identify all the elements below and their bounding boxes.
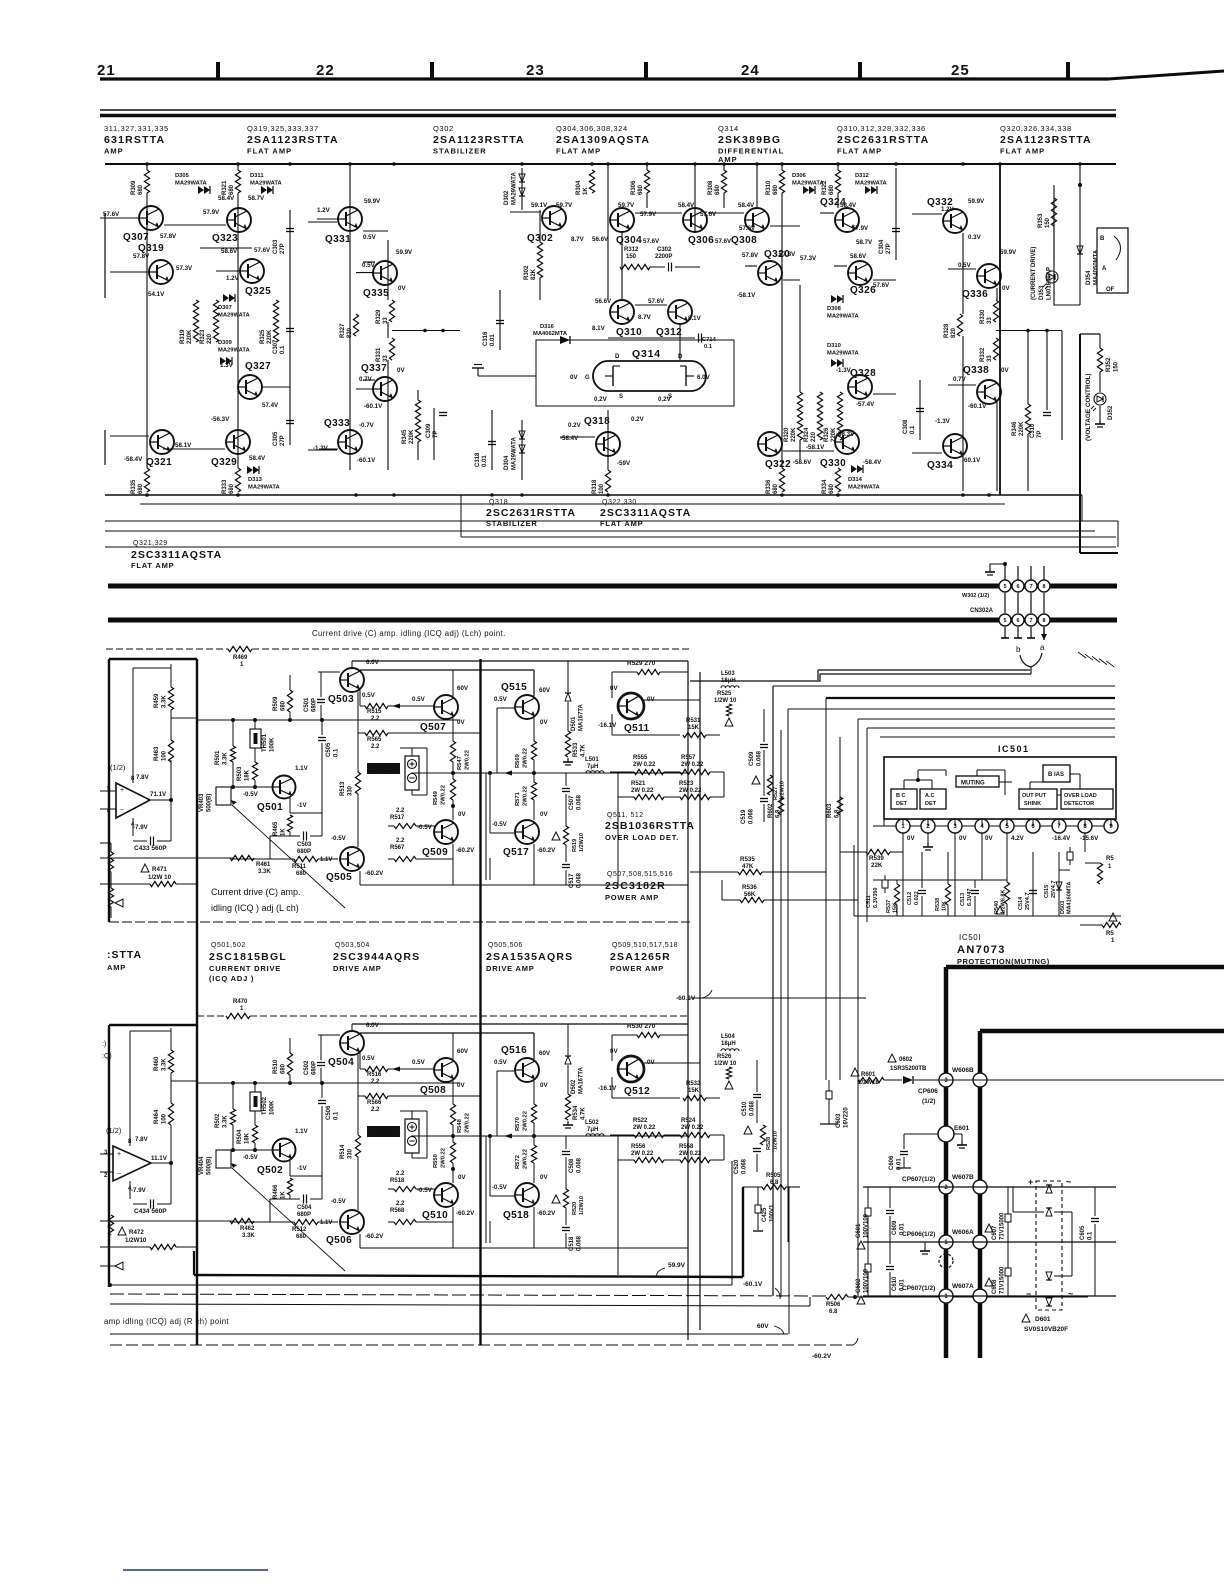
resistor R323	[211, 300, 221, 342]
svg-text:R325: R325	[260, 329, 266, 344]
svg-text:0.1: 0.1	[910, 425, 916, 434]
svg-text:VR403: VR403	[199, 793, 205, 812]
svg-text:100: 100	[162, 750, 168, 761]
svg-text:0V: 0V	[540, 1082, 548, 1089]
wire bus 449	[163, 448, 225, 450]
wire q511	[611, 672, 613, 698]
svg-text:C506: C506	[326, 1105, 332, 1120]
svg-text:D354: D354	[1086, 270, 1092, 285]
svg-text:C605: C605	[1080, 1225, 1086, 1240]
junction dots top rail	[145, 162, 149, 166]
svg-text:57.3V: 57.3V	[800, 255, 817, 262]
resistor R329	[387, 300, 397, 322]
svg-text:R520: R520	[572, 1202, 578, 1215]
svg-text:Q321: Q321	[146, 457, 172, 468]
svg-text:R525: R525	[717, 691, 732, 697]
wire col R345	[417, 390, 419, 460]
connector CN302A pin 6	[1017, 593, 1019, 613]
wire -60.1V run	[690, 997, 866, 999]
svg-text:Q307: Q307	[123, 232, 149, 243]
svg-text:D601: D601	[1035, 1316, 1051, 1323]
wire trimmer leads	[411, 748, 413, 756]
wire q517 base	[490, 832, 514, 834]
bridge D601 dashed box	[1036, 1181, 1062, 1310]
warning triangle	[725, 1081, 733, 1089]
svg-text:60V: 60V	[539, 687, 551, 694]
wire q321 base	[110, 435, 149, 437]
svg-text:-16.1V: -16.1V	[598, 722, 617, 729]
svg-text:R336: R336	[766, 479, 772, 494]
svg-text:2SB1036RSTTA: 2SB1036RSTTA	[605, 820, 695, 832]
connector CN302A pin 5	[1004, 593, 1006, 613]
svg-text:R523: R523	[679, 781, 694, 787]
svg-text:2SC1815BGL: 2SC1815BGL	[209, 951, 287, 963]
svg-text:220K: 220K	[187, 329, 193, 344]
wire col R346	[1027, 331, 1029, 491]
svg-text:2W0.22: 2W0.22	[523, 748, 529, 768]
wire q505 emitter down	[359, 871, 361, 885]
resistor R327	[351, 314, 361, 336]
svg-text:Q517: Q517	[503, 847, 529, 858]
svg-text:0.022: 0.022	[914, 891, 920, 905]
svg-text:R324: R324	[804, 427, 810, 442]
wire q306-q308	[708, 212, 744, 214]
channel bottom dashed L	[109, 921, 690, 923]
svg-text:R5: R5	[1106, 931, 1114, 937]
transistor Q516	[515, 1058, 539, 1082]
wire bus vertical x773	[772, 686, 774, 1296]
svg-text:R549: R549	[433, 790, 439, 805]
resistor R330	[991, 300, 1001, 322]
svg-text:8.7V: 8.7V	[638, 314, 652, 321]
svg-text:Q501,502: Q501,502	[211, 942, 246, 949]
wire rail 2	[140, 503, 1005, 505]
svg-text:15K: 15K	[688, 1088, 700, 1094]
wire col R324	[819, 392, 821, 440]
wire Q314 loop	[536, 340, 734, 406]
wire q307 base	[100, 217, 138, 219]
svg-text:R459: R459	[154, 693, 160, 708]
svg-text:Q312: Q312	[656, 327, 682, 338]
ruler tick	[430, 62, 434, 78]
svg-text:-1.3V: -1.3V	[836, 367, 852, 374]
wire q334 base	[912, 452, 942, 454]
svg-text:-1V: -1V	[297, 802, 308, 809]
svg-text:C310: C310	[1030, 423, 1036, 438]
wire x789 vertical	[788, 1187, 790, 1334]
svg-text:amp idling (ICQ) adj (R ch): amp idling (ICQ) adj (R ch) point	[104, 1317, 229, 1326]
capacitor C308	[916, 408, 924, 410]
wire q509 emitter to bus	[452, 859, 454, 885]
resistor R512	[294, 1219, 318, 1224]
wire col C308	[919, 380, 921, 440]
svg-text:C507: C507	[569, 795, 575, 810]
resistor R540	[1002, 882, 1012, 904]
svg-text:57.9V: 57.9V	[203, 209, 220, 216]
svg-text:500(B): 500(B)	[207, 1157, 213, 1175]
svg-text:58.4V: 58.4V	[249, 455, 266, 462]
svg-text:8.1V: 8.1V	[688, 315, 702, 322]
wire q511	[611, 1035, 613, 1061]
svg-text:6.0V: 6.0V	[697, 374, 711, 381]
svg-text:D304: D304	[504, 455, 510, 470]
svg-text:R538: R538	[935, 898, 941, 911]
diode D313	[247, 466, 253, 474]
diode D316	[560, 336, 570, 344]
svg-text:R469: R469	[233, 655, 248, 661]
svg-text:R528: R528	[766, 1137, 772, 1150]
bottom long line 1294 dashed	[110, 1294, 826, 1296]
svg-text:-1.3V: -1.3V	[313, 445, 329, 452]
trimmer VR403	[216, 787, 231, 805]
connector W606B	[939, 1073, 953, 1087]
connector CN302A pin 8	[1043, 593, 1045, 613]
resistor R345	[413, 400, 423, 442]
wire q517 column	[533, 1207, 535, 1248]
ground R534	[567, 1121, 569, 1125]
svg-text:330: 330	[348, 785, 354, 796]
svg-text:59.7V: 59.7V	[618, 202, 635, 209]
svg-text:1.2V: 1.2V	[941, 206, 955, 213]
svg-text:+: +	[1028, 1177, 1033, 1187]
svg-text:100K: 100K	[270, 1100, 276, 1115]
wire q320 base	[745, 265, 757, 267]
svg-text:1K: 1K	[281, 1191, 287, 1199]
svg-text:0.01: 0.01	[900, 1223, 906, 1235]
svg-text:220K: 220K	[1019, 421, 1025, 436]
svg-text:Q503,504: Q503,504	[335, 942, 370, 949]
wire col Q323	[237, 164, 239, 491]
svg-text:DETECTOR: DETECTOR	[1064, 801, 1094, 807]
svg-text:(1/2): (1/2)	[106, 1126, 122, 1135]
svg-text:Q516: Q516	[501, 1045, 527, 1056]
wire q310-q312	[635, 304, 667, 306]
svg-text:R548: R548	[457, 1118, 463, 1133]
svg-text:0.068: 0.068	[577, 872, 583, 888]
transistor Q502	[273, 1139, 296, 1162]
svg-text:A.C: A.C	[925, 793, 935, 799]
wire q326 out	[873, 279, 896, 281]
resistor R516	[359, 1053, 361, 1069]
svg-text:C316: C316	[483, 331, 489, 346]
divider channel box left R	[108, 1025, 110, 1287]
transistor Q326	[848, 261, 872, 285]
diode D305	[198, 186, 204, 194]
svg-text:CP607(1/2): CP607(1/2)	[902, 1176, 935, 1183]
ruler tick	[1066, 62, 1070, 78]
transistor Q318	[596, 432, 620, 456]
svg-text:7.8V: 7.8V	[135, 1136, 149, 1143]
svg-text:0.5V: 0.5V	[362, 692, 376, 699]
capacitor C304	[892, 228, 900, 230]
wire col Q307	[146, 164, 148, 491]
resistor R333	[233, 468, 243, 492]
wire rail 1080	[940, 1079, 1224, 1081]
svg-text:1K: 1K	[281, 828, 287, 836]
capacitor C502	[320, 1035, 322, 1060]
svg-text:2SK389BG: 2SK389BG	[718, 134, 781, 146]
resistor R537	[894, 884, 899, 905]
trimmer jack	[405, 1119, 419, 1153]
svg-text:OF: OF	[1106, 287, 1115, 293]
diode D310	[831, 359, 837, 367]
svg-text:PROTECTION(MUTING): PROTECTION(MUTING)	[957, 957, 1050, 966]
svg-text:Q515: Q515	[501, 682, 527, 693]
svg-text:-60.1V: -60.1V	[743, 1281, 763, 1288]
wire bus horizontal y686	[773, 685, 1115, 687]
wire q509 links	[452, 1177, 454, 1183]
capacitor C309	[439, 412, 447, 414]
svg-text:R509: R509	[273, 696, 279, 711]
svg-text:DRIVE AMP: DRIVE AMP	[486, 964, 535, 973]
svg-text:W606A: W606A	[952, 1229, 974, 1236]
wire q503 collector rail	[360, 669, 534, 671]
svg-text:Q505: Q505	[326, 872, 352, 883]
connector E601	[938, 1126, 954, 1142]
wire q335 base	[363, 261, 375, 263]
svg-text:100: 100	[162, 1113, 168, 1124]
wire col C318	[491, 410, 493, 470]
transistor Q302	[542, 206, 566, 230]
svg-text:15K: 15K	[688, 725, 700, 731]
svg-text:C512: C512	[907, 892, 913, 905]
svg-text:2.2: 2.2	[396, 1201, 405, 1207]
svg-text:8.7V: 8.7V	[571, 236, 585, 243]
svg-text:6.8: 6.8	[776, 809, 782, 818]
svg-text:-60.1V: -60.1V	[364, 403, 383, 410]
svg-text:VR404: VR404	[199, 1156, 205, 1175]
capacitor C501	[320, 672, 322, 697]
transistor Q505	[340, 847, 364, 871]
wire bottom row L	[100, 857, 233, 859]
transistor Q306	[683, 208, 707, 232]
wire col Q318	[607, 410, 609, 491]
bridge diode 2	[1046, 1208, 1052, 1216]
ground voltage control	[1099, 406, 1101, 420]
svg-text:LN01830AP: LN01830AP	[1047, 267, 1053, 300]
resistor R539	[866, 849, 890, 854]
svg-text:33: 33	[987, 355, 993, 362]
svg-text:58.6V: 58.6V	[850, 253, 867, 260]
svg-text:FLAT AMP: FLAT AMP	[247, 147, 292, 156]
svg-text:82K: 82K	[531, 268, 537, 280]
svg-text:18K: 18K	[245, 1132, 251, 1144]
connector W607B	[939, 1180, 953, 1194]
svg-text:OUT PUT: OUT PUT	[1022, 793, 1047, 799]
svg-text:18K: 18K	[245, 769, 251, 781]
svg-text:R334: R334	[822, 479, 828, 494]
svg-text:-60.2V: -60.2V	[537, 847, 556, 854]
resistor R334	[833, 468, 843, 492]
resistor R506	[826, 1294, 848, 1299]
svg-text:TH502: TH502	[262, 1096, 268, 1115]
transistor Q324	[835, 208, 859, 232]
resistor R472	[118, 1227, 126, 1235]
wire q310 row	[608, 337, 695, 339]
svg-text:R326: R326	[824, 427, 830, 442]
svg-text:-1.1V: -1.1V	[318, 1220, 332, 1226]
diode D302 (vertical pair)	[519, 174, 525, 182]
svg-text:58.4V: 58.4V	[840, 202, 857, 209]
svg-text:2.2: 2.2	[371, 1079, 380, 1085]
svg-text:CURRENT DRIVE: CURRENT DRIVE	[209, 964, 281, 973]
svg-text:0V: 0V	[540, 1174, 548, 1181]
svg-text:C508: C508	[569, 1158, 575, 1173]
svg-text:0.2V: 0.2V	[594, 396, 608, 403]
svg-text:-1V: -1V	[297, 1165, 308, 1172]
thick border 2 vertical	[978, 1031, 983, 1358]
svg-text:C303: C303	[273, 239, 279, 254]
wire col R310	[781, 164, 783, 491]
svg-text:TP501: TP501	[370, 765, 394, 774]
wire bus horizontal y670	[818, 669, 1030, 671]
diode D309	[220, 357, 226, 365]
svg-text:0.068: 0.068	[742, 1158, 748, 1174]
svg-text:D501: D501	[571, 716, 577, 731]
transistor Q329	[226, 430, 250, 454]
svg-text:R602: R602	[768, 803, 774, 818]
resistor R534	[567, 1065, 569, 1094]
resistor R572	[531, 1145, 536, 1163]
svg-text:2SA1123RSTTA: 2SA1123RSTTA	[433, 134, 525, 146]
resistor R511	[294, 856, 318, 861]
svg-text:R555: R555	[633, 755, 648, 761]
svg-text:1/2W10: 1/2W10	[579, 1196, 585, 1215]
svg-text:R329: R329	[376, 309, 382, 324]
svg-text:R565: R565	[367, 737, 382, 743]
svg-text:1.1V: 1.1V	[295, 765, 309, 772]
svg-text:Q504: Q504	[328, 1057, 354, 1068]
transistor Q332	[943, 209, 967, 233]
svg-text:57.6V: 57.6V	[648, 298, 665, 305]
transistor Q312	[668, 300, 692, 324]
svg-text:Q302: Q302	[433, 124, 454, 133]
svg-text:1/2W6.8K: 1/2W6.8K	[1001, 890, 1007, 914]
capacitor C513	[971, 890, 979, 892]
transistor Q504	[340, 1031, 364, 1055]
wire trimmer leads	[411, 1111, 413, 1119]
svg-text:SHINK: SHINK	[1024, 801, 1041, 807]
svg-text:-60.2V: -60.2V	[365, 1233, 384, 1240]
svg-text:58.4V: 58.4V	[678, 202, 695, 209]
capacitor C506	[321, 1083, 323, 1098]
svg-text:680: 680	[715, 184, 721, 195]
svg-text:60V: 60V	[457, 685, 469, 692]
wire col Q335	[387, 240, 389, 470]
trimmer VR404	[216, 1150, 231, 1168]
diode D308	[831, 295, 837, 303]
svg-text:57.9V: 57.9V	[640, 211, 657, 218]
resistor R520	[565, 1157, 567, 1189]
svg-text:Q304,306,308,324: Q304,306,308,324	[556, 124, 628, 133]
resistor R310	[777, 170, 787, 193]
resistor R306	[642, 170, 652, 193]
svg-text:-0.5V: -0.5V	[492, 821, 508, 828]
svg-text:0V: 0V	[457, 719, 465, 726]
svg-text:D353: D353	[1039, 285, 1045, 300]
svg-text:C308: C308	[903, 419, 909, 434]
wire col R302	[539, 210, 541, 300]
svg-text:R558: R558	[679, 1144, 694, 1150]
svg-text:680: 680	[229, 184, 235, 195]
svg-text:680: 680	[138, 483, 144, 494]
svg-text:2.2: 2.2	[371, 716, 380, 722]
svg-text:C513: C513	[960, 893, 966, 906]
svg-text:-1.3V: -1.3V	[935, 418, 951, 425]
capacitor C504	[270, 1198, 300, 1200]
svg-text:R352: R352	[1106, 357, 1112, 372]
svg-text:C601: C601	[856, 1223, 862, 1238]
svg-text:FLAT AMP: FLAT AMP	[1000, 147, 1045, 156]
diode D314	[851, 465, 857, 473]
svg-text:1/2W 10: 1/2W 10	[714, 1061, 737, 1067]
svg-text:-0.5V: -0.5V	[331, 1198, 347, 1205]
svg-text:-60.2V: -60.2V	[537, 1210, 556, 1217]
svg-text:150: 150	[1114, 361, 1120, 372]
wire q509 emitter to bus	[452, 1222, 454, 1248]
svg-text:C504: C504	[297, 1205, 312, 1211]
svg-text:22: 22	[316, 62, 335, 79]
svg-text:R537: R537	[886, 900, 892, 913]
wire q515 base	[497, 707, 514, 709]
svg-text:R320: R320	[784, 427, 790, 442]
svg-text:R304: R304	[576, 180, 582, 195]
svg-text:2SC3311AQSTA: 2SC3311AQSTA	[600, 507, 691, 519]
wire opamp out L	[150, 799, 171, 801]
voltage control box bottom	[1080, 552, 1118, 554]
wire opamp out R	[151, 1162, 171, 1164]
transistor Q518	[515, 1183, 539, 1207]
svg-text:R539: R539	[869, 855, 884, 862]
svg-text:Q321,329: Q321,329	[133, 540, 168, 547]
connector pass-through	[973, 1073, 987, 1087]
svg-text:B: B	[1100, 236, 1105, 242]
svg-text:-58.1V: -58.1V	[737, 292, 756, 299]
svg-text:6.3V350: 6.3V350	[873, 888, 879, 909]
capacitor C511 (el)	[882, 880, 888, 888]
svg-text:FLAT AMP: FLAT AMP	[131, 561, 174, 570]
svg-text:Q503: Q503	[328, 694, 354, 705]
svg-text:−: −	[120, 807, 124, 814]
svg-text:TH501: TH501	[262, 733, 268, 752]
svg-text:Q518: Q518	[503, 1210, 529, 1221]
svg-text:W302 (1/2): W302 (1/2)	[962, 593, 989, 599]
svg-text:7P: 7P	[433, 431, 439, 438]
resistor R536	[722, 899, 740, 901]
svg-text:FLAT AMP: FLAT AMP	[600, 519, 643, 528]
svg-text:56.6V: 56.6V	[592, 236, 609, 243]
wire base row Q502	[233, 1149, 272, 1151]
svg-text:R517: R517	[390, 815, 405, 821]
svg-text:MA29WATA: MA29WATA	[792, 181, 824, 187]
wire q302 base	[510, 211, 541, 213]
svg-text:R503: R503	[237, 766, 243, 781]
divider channel box top L	[109, 658, 197, 660]
capacitor C433	[150, 837, 152, 846]
svg-text:MA167TA: MA167TA	[579, 703, 585, 731]
svg-text:2SA1123RSTTA: 2SA1123RSTTA	[1000, 134, 1092, 146]
svg-text:Q310,312,328,332,336: Q310,312,328,332,336	[837, 124, 926, 133]
wire col C310	[1046, 331, 1048, 410]
resistor R571	[531, 782, 536, 800]
label D601	[1022, 1314, 1030, 1322]
left edge resistors R	[108, 1215, 113, 1235]
svg-text:C606: C606	[889, 1155, 895, 1170]
svg-text:-16.4V: -16.4V	[1052, 835, 1071, 842]
svg-text:680P: 680P	[312, 698, 318, 712]
wire 60V rail	[318, 671, 340, 673]
wire q336 base	[948, 268, 976, 270]
